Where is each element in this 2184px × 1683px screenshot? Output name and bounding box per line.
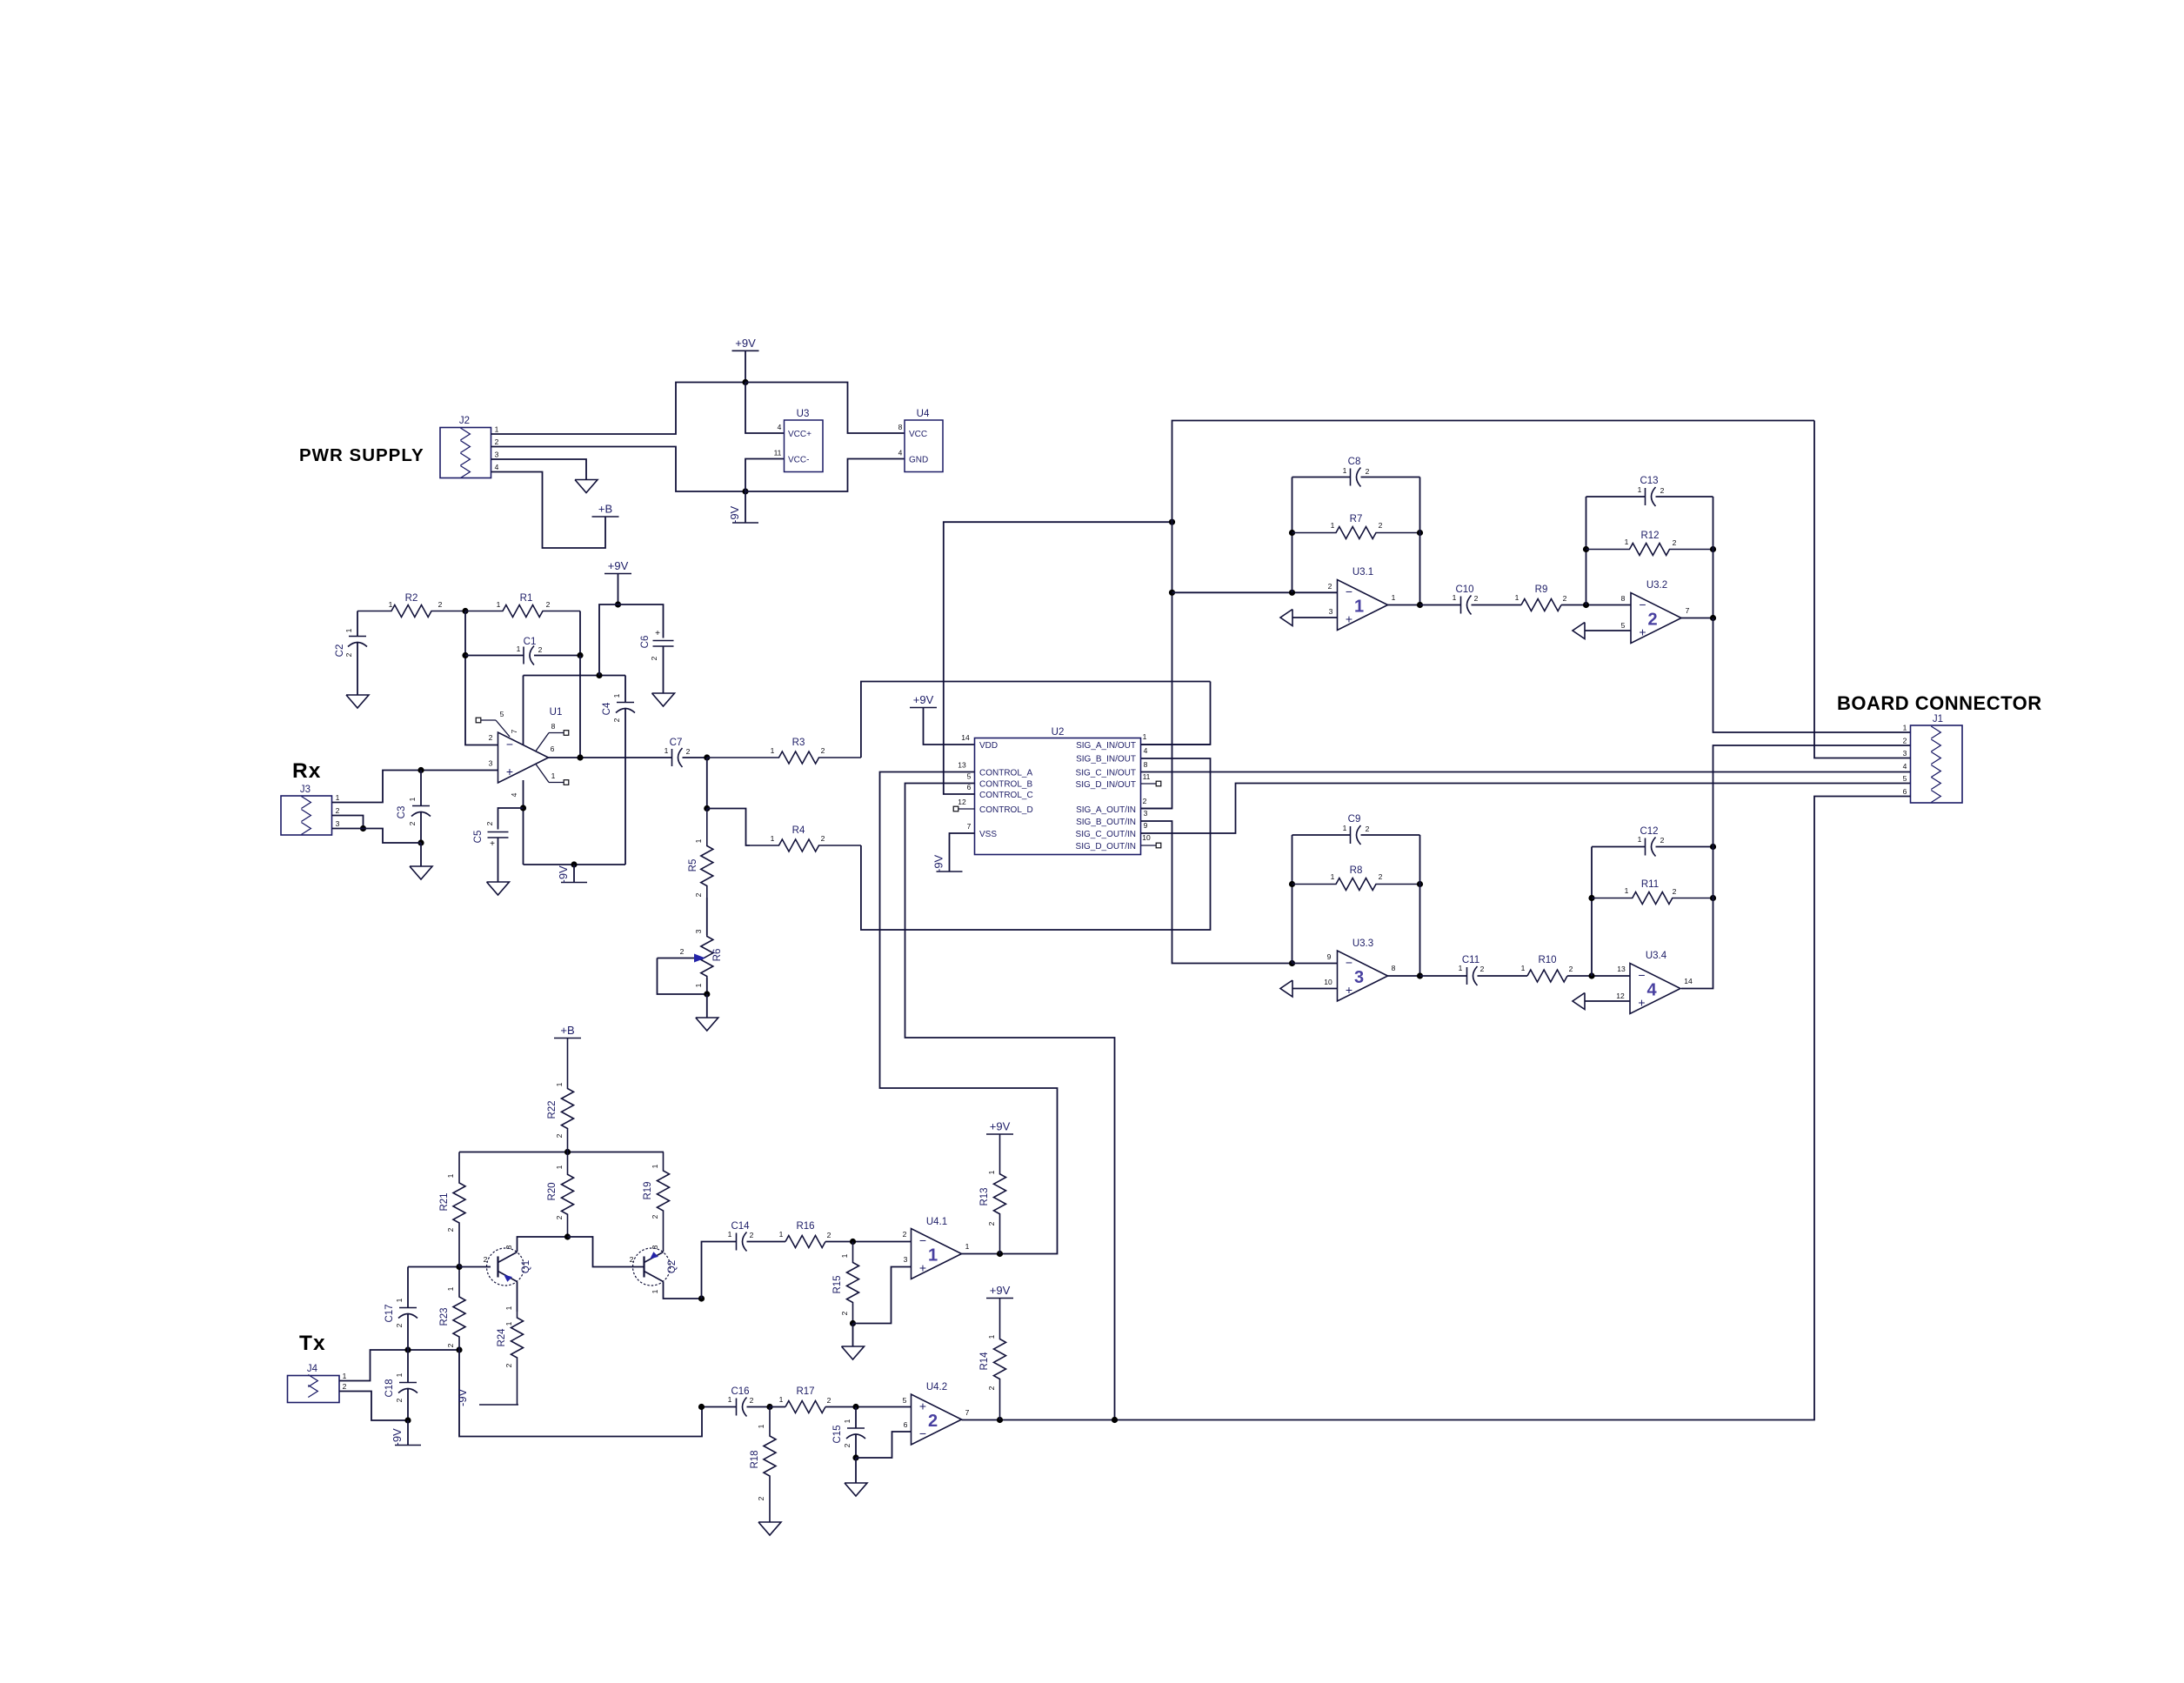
- capacitor C12: [1638, 826, 1665, 857]
- svg-text:C14: C14: [731, 1221, 750, 1232]
- junction U4.2 out: [997, 1417, 1003, 1423]
- wire SIG_A_OUT drop: [1141, 522, 1172, 808]
- svg-text:1: 1: [336, 793, 340, 802]
- svg-text:8: 8: [1392, 964, 1396, 972]
- wire Q2 collector down: [664, 1282, 702, 1299]
- svg-text:1: 1: [987, 1334, 996, 1339]
- junction -9V rail: [742, 488, 748, 494]
- capacitor C10: [1453, 584, 1479, 615]
- wire Q1 collector: [518, 1237, 568, 1252]
- svg-text:J3: J3: [300, 785, 311, 795]
- svg-text:1: 1: [728, 1230, 732, 1239]
- svg-text:CONTROL_C: CONTROL_C: [979, 791, 1033, 800]
- wire J4 pin2 to C18 node: [339, 1392, 408, 1421]
- op-amp U3.3: [1324, 938, 1395, 1001]
- svg-text:4: 4: [898, 449, 903, 457]
- wire +9V to C6: [618, 604, 664, 638]
- wire C2 bottom lead: [357, 643, 358, 695]
- wire stage1 loop right: [1419, 478, 1421, 605]
- capacitor C9: [1343, 814, 1370, 845]
- wire C18 bottom lead: [407, 1389, 409, 1420]
- svg-text:R16: R16: [796, 1221, 814, 1232]
- svg-text:VCC: VCC: [909, 430, 927, 439]
- svg-text:+: +: [919, 1261, 926, 1275]
- resistor R22: [547, 1039, 574, 1152]
- resistor R21: [439, 1152, 465, 1267]
- wire U1 pin4: [523, 780, 524, 865]
- capacitor C16: [728, 1386, 754, 1417]
- svg-text:1: 1: [843, 1419, 852, 1423]
- resistor R8: [1292, 865, 1420, 891]
- svg-text:SIG_A_IN/OUT: SIG_A_IN/OUT: [1076, 741, 1136, 751]
- svg-text:2: 2: [1328, 582, 1332, 591]
- svg-text:1: 1: [555, 1082, 564, 1086]
- svg-text:R22: R22: [547, 1100, 558, 1119]
- svg-text:R8: R8: [1350, 865, 1363, 876]
- wire C12 right lead: [1656, 846, 1713, 848]
- capacitor C6: [640, 629, 674, 660]
- wire J3 pin2 jog: [332, 816, 364, 829]
- wire stage1 input: [1172, 591, 1338, 593]
- wire stage3 loop left: [1292, 835, 1293, 964]
- pot pin1 label: [694, 983, 703, 987]
- svg-text:SIG_A_OUT/IN: SIG_A_OUT/IN: [1076, 805, 1136, 815]
- svg-text:R24: R24: [497, 1328, 507, 1347]
- svg-text:4: 4: [1903, 762, 1907, 771]
- svg-text:9: 9: [1327, 952, 1332, 961]
- svg-text:1: 1: [497, 600, 501, 609]
- wire U3.3 output: [1388, 975, 1420, 977]
- pot pin3 label: [694, 929, 703, 933]
- svg-text:SIG_D_IN/OUT: SIG_D_IN/OUT: [1076, 780, 1136, 790]
- svg-text:+9V: +9V: [990, 1120, 1011, 1133]
- svg-text:2: 2: [1474, 594, 1479, 603]
- svg-text:8: 8: [551, 722, 556, 731]
- op-amp U3.2: [1621, 580, 1690, 644]
- resistor R9: [1515, 584, 1567, 611]
- svg-text:2: 2: [446, 1343, 455, 1347]
- wire J3 pin3 to C3 bottom: [332, 829, 422, 844]
- resistor R12: [1586, 531, 1713, 556]
- svg-text:R20: R20: [547, 1182, 558, 1200]
- svg-text:7: 7: [1686, 606, 1690, 615]
- wire CONTROL_C up-over: [944, 522, 1172, 794]
- svg-text:1: 1: [779, 1395, 784, 1404]
- junction R8 right: [1417, 881, 1423, 887]
- ground (C6): [652, 693, 675, 706]
- svg-text:Tx: Tx: [299, 1332, 326, 1355]
- wire C4 top lead: [624, 676, 626, 703]
- svg-text:1: 1: [555, 1165, 564, 1169]
- svg-text:J4: J4: [307, 1364, 318, 1374]
- svg-text:1: 1: [343, 1372, 347, 1380]
- svg-text:10: 10: [1324, 978, 1332, 986]
- svg-text:12: 12: [958, 798, 966, 806]
- svg-text:−: −: [1639, 598, 1646, 611]
- svg-text:2: 2: [928, 1412, 938, 1431]
- wire C4 bottom lead: [624, 709, 626, 865]
- junction Q2 collector node: [698, 1295, 705, 1301]
- junction R11 left: [1588, 895, 1594, 901]
- connector J2: [440, 416, 499, 478]
- svg-text:C16: C16: [731, 1386, 749, 1397]
- resistor R10: [1521, 955, 1573, 982]
- wire U3.2 out to J1 pin1: [1713, 618, 1911, 733]
- wire top long rail: [1172, 421, 1815, 523]
- ref arrow (U3.3 +in): [1280, 980, 1292, 997]
- junction C16 node: [698, 1404, 705, 1410]
- svg-text:R21: R21: [439, 1192, 450, 1211]
- ground (R18): [758, 1522, 781, 1535]
- svg-text:2: 2: [1480, 965, 1485, 973]
- svg-text:-9V: -9V: [391, 1428, 404, 1446]
- resistor R5: [688, 809, 713, 898]
- transistor Q1: [487, 1248, 532, 1286]
- svg-text:R2: R2: [405, 593, 418, 604]
- svg-text:-9V: -9V: [932, 854, 945, 872]
- resistor R24: [497, 1306, 524, 1405]
- svg-text:3: 3: [1144, 809, 1148, 818]
- resistor R20: [547, 1152, 574, 1238]
- svg-text:SIG_C_OUT/IN: SIG_C_OUT/IN: [1076, 830, 1136, 839]
- svg-text:2: 2: [694, 892, 703, 897]
- junction C3 bottom: [417, 839, 424, 845]
- svg-text:1: 1: [1459, 964, 1463, 972]
- wire C15 ground stem: [855, 1458, 857, 1483]
- svg-text:U3.3: U3.3: [1352, 938, 1373, 949]
- svg-text:1: 1: [665, 746, 669, 755]
- svg-text:C11: C11: [1462, 955, 1479, 965]
- svg-text:R6: R6: [712, 949, 723, 962]
- wire C15 to U4.2 -in: [856, 1432, 912, 1458]
- capacitor C11: [1459, 955, 1485, 985]
- wire C3 top lead: [420, 771, 422, 806]
- svg-text:4: 4: [495, 463, 499, 471]
- junction R18 top: [766, 1404, 772, 1410]
- resistor R1: [465, 593, 580, 618]
- wire U3.4 +in: [1585, 1000, 1630, 1002]
- svg-text:2: 2: [630, 1255, 634, 1264]
- wire U3.3 +in: [1292, 988, 1338, 990]
- svg-text:2: 2: [1563, 594, 1567, 603]
- ground (R15): [842, 1346, 865, 1359]
- svg-text:R11: R11: [1641, 879, 1659, 890]
- wire U3 VCC- stub: [745, 459, 785, 492]
- capacitor C14: [728, 1221, 754, 1252]
- power -9V (R24): [456, 1388, 518, 1406]
- svg-text:R18: R18: [750, 1450, 760, 1468]
- junction U3.1 input tap: [1169, 590, 1175, 596]
- wire U3.1 +in: [1292, 617, 1338, 618]
- svg-text:1: 1: [1343, 466, 1347, 475]
- wire C16 to R18 node: [747, 1406, 771, 1408]
- junction R15 top: [850, 1239, 856, 1245]
- svg-text:8: 8: [1144, 760, 1148, 769]
- svg-text:+9V: +9V: [608, 559, 629, 572]
- capacitor C2: [335, 628, 367, 657]
- svg-text:1: 1: [1331, 872, 1335, 881]
- wire collector node to Q2 base: [568, 1237, 645, 1267]
- svg-text:4: 4: [510, 792, 518, 797]
- svg-text:BOARD CONNECTOR: BOARD CONNECTOR: [1837, 692, 2042, 714]
- ref arrow (U3.2 +in): [1573, 623, 1585, 639]
- junction R8 left: [1289, 881, 1295, 887]
- wire to C14 row: [702, 1242, 737, 1299]
- wire R5 top: [706, 758, 708, 809]
- svg-text:1: 1: [1392, 593, 1396, 602]
- svg-text:5: 5: [500, 710, 504, 718]
- svg-text:1: 1: [928, 1246, 938, 1266]
- svg-text:4: 4: [1144, 746, 1148, 755]
- svg-text:R19: R19: [643, 1181, 653, 1199]
- svg-text:2: 2: [484, 1255, 488, 1264]
- svg-text:U3.1: U3.1: [1352, 567, 1373, 578]
- wire to R17: [770, 1406, 785, 1408]
- pin 11 pad U2: [1156, 781, 1161, 786]
- pin 5 stub U1: [481, 710, 510, 737]
- svg-text:2: 2: [987, 1221, 996, 1226]
- wire -9V rail to U4 GND: [745, 459, 905, 492]
- op-amp U3.4: [1616, 951, 1693, 1014]
- svg-text:C8: C8: [1348, 457, 1361, 467]
- svg-text:7: 7: [510, 729, 518, 733]
- power -9V (C18): [391, 1428, 421, 1446]
- wire C11 to R10: [1478, 975, 1528, 977]
- svg-text:11: 11: [774, 449, 782, 457]
- svg-text:R15: R15: [832, 1275, 843, 1293]
- wire CONTROL_B to U4.2 out: [905, 784, 1115, 1420]
- svg-text:U1: U1: [550, 707, 563, 718]
- svg-text:2: 2: [987, 1386, 996, 1390]
- svg-text:1: 1: [1625, 538, 1629, 546]
- power +B (supply): [592, 503, 619, 518]
- Q2 pin labels: [630, 1245, 659, 1293]
- wire to C11: [1420, 975, 1467, 977]
- wire R6 wiper loop: [658, 958, 707, 995]
- wire C1 node to output node: [579, 656, 581, 758]
- svg-text:2: 2: [750, 1396, 754, 1405]
- svg-text:SIG_D_OUT/IN: SIG_D_OUT/IN: [1076, 842, 1136, 852]
- wire stage3 input cont: [1292, 963, 1338, 965]
- junction C15 top: [852, 1404, 858, 1410]
- ground (R6): [696, 1018, 718, 1031]
- resistor R3: [707, 738, 861, 764]
- wire R5 to R6: [706, 898, 708, 935]
- wire Q1 base: [459, 1266, 491, 1268]
- wire U3.1 output: [1388, 604, 1420, 606]
- svg-text:2: 2: [1379, 521, 1383, 530]
- svg-text:1: 1: [551, 771, 556, 780]
- wire U1 bottom edge: [524, 864, 626, 865]
- svg-text:−: −: [1638, 968, 1645, 982]
- svg-text:+: +: [655, 629, 660, 638]
- svg-text:2: 2: [757, 1496, 765, 1500]
- wire CONTROL_A to U4.1 out: [880, 772, 1058, 1254]
- op-amp U4.2: [903, 1382, 970, 1445]
- wire C7 to R3 node: [683, 757, 707, 758]
- big label Tx: [299, 1332, 326, 1355]
- svg-text:C12: C12: [1640, 826, 1658, 837]
- svg-text:U3: U3: [797, 409, 810, 419]
- svg-text:1: 1: [504, 1306, 513, 1310]
- svg-text:1: 1: [779, 1230, 784, 1239]
- junction J3 pin2/pin3: [360, 825, 366, 831]
- resistor R7: [1292, 514, 1420, 539]
- pin 12 pad U2: [953, 806, 958, 811]
- wire R4 riser: [861, 758, 1211, 930]
- wire U4.2 output: [962, 1419, 1000, 1421]
- svg-text:1: 1: [344, 628, 353, 632]
- svg-text:2: 2: [446, 1227, 455, 1232]
- svg-text:R4: R4: [792, 825, 805, 836]
- junction R12 left: [1583, 546, 1589, 552]
- svg-text:2: 2: [903, 1230, 907, 1239]
- svg-text:2: 2: [1903, 737, 1907, 745]
- wire U1 -9V stem: [573, 865, 575, 883]
- wire pin4 to C5: [498, 808, 524, 830]
- power +9V (R13): [986, 1120, 1013, 1135]
- svg-text:5: 5: [1903, 774, 1907, 783]
- wire +9V down to U3 VCC+: [745, 383, 785, 434]
- wire U3.2 output: [1681, 618, 1713, 619]
- wire R16 to U4.1: [825, 1241, 912, 1243]
- junction stage1 loop left bottom: [1289, 590, 1295, 596]
- svg-text:1: 1: [728, 1395, 732, 1404]
- svg-text:13: 13: [1617, 965, 1626, 973]
- junction R4/R5: [704, 805, 710, 811]
- svg-text:-9V: -9V: [456, 1388, 469, 1406]
- junction +9V rail: [742, 379, 748, 385]
- svg-text:GND: GND: [909, 456, 928, 465]
- svg-text:1: 1: [1354, 598, 1364, 617]
- junction C1 right: [577, 652, 583, 658]
- wire C8 right lead: [1361, 477, 1420, 478]
- wire J2 pin2 to -9V rail: [491, 447, 746, 492]
- resistor R11: [1592, 879, 1713, 905]
- wire C6 bottom lead: [663, 646, 665, 693]
- svg-text:3: 3: [495, 451, 499, 459]
- svg-text:2: 2: [489, 733, 493, 742]
- wire C17 bottom lead: [407, 1314, 409, 1350]
- svg-text:3: 3: [1329, 607, 1333, 616]
- svg-text:+B: +B: [598, 503, 612, 516]
- svg-text:−: −: [919, 1426, 926, 1440]
- pin 8 stub U1: [536, 722, 564, 751]
- svg-text:2: 2: [1673, 538, 1677, 547]
- wire J2 pin1 to +9V rail: [491, 383, 746, 435]
- wire C17 branch top: [407, 1267, 409, 1308]
- capacitor C8: [1343, 457, 1370, 487]
- pin 12 stub U2: [958, 808, 975, 810]
- svg-text:2: 2: [686, 747, 691, 756]
- svg-text:2: 2: [395, 1398, 404, 1402]
- pin 10 pad U2: [1156, 843, 1161, 848]
- svg-text:1: 1: [517, 644, 521, 653]
- junction C1 left: [462, 652, 468, 658]
- svg-text:3: 3: [651, 1245, 659, 1249]
- junction C15 bottom: [852, 1454, 858, 1460]
- wire stage3 loop right: [1419, 835, 1421, 976]
- ground (C5): [487, 882, 510, 895]
- svg-text:1: 1: [495, 425, 499, 434]
- power -9V (U1): [557, 865, 587, 884]
- junction stage4 in: [1588, 972, 1594, 978]
- svg-text:-9V: -9V: [557, 865, 570, 884]
- svg-text:PWR SUPPLY: PWR SUPPLY: [299, 445, 424, 465]
- svg-text:14: 14: [961, 733, 970, 742]
- svg-text:J1: J1: [1933, 714, 1943, 725]
- svg-text:2: 2: [821, 746, 825, 755]
- wire R9 to U3.2: [1561, 604, 1631, 606]
- IC U2 box: [975, 727, 1141, 855]
- capacitor C5: [473, 821, 509, 849]
- svg-text:1: 1: [395, 1298, 404, 1302]
- power +9V (supply): [732, 337, 759, 351]
- svg-text:1: 1: [389, 600, 393, 609]
- svg-text:C9: C9: [1348, 814, 1361, 825]
- ground (C2): [346, 695, 369, 708]
- svg-text:2: 2: [1660, 836, 1665, 845]
- svg-text:6: 6: [551, 745, 555, 753]
- svg-text:1: 1: [1331, 521, 1335, 530]
- capacitor C4: [602, 693, 635, 722]
- svg-text:1: 1: [651, 1289, 659, 1293]
- svg-text:+B: +B: [560, 1024, 574, 1037]
- svg-text:1: 1: [1903, 724, 1907, 732]
- wire U1 pin7: [523, 676, 524, 745]
- svg-text:+: +: [1346, 612, 1352, 626]
- junction U1 out / C1C4 node: [577, 754, 583, 760]
- pin 1 pad U1: [564, 780, 569, 785]
- wire C1 left lead: [465, 655, 524, 657]
- svg-text:2: 2: [546, 600, 551, 609]
- wire R10 to U3.4: [1567, 975, 1630, 977]
- resistor R6 (pot): [701, 935, 723, 978]
- svg-text:2: 2: [555, 1215, 564, 1219]
- svg-text:2: 2: [821, 834, 825, 843]
- wire R3 riser: [861, 682, 1211, 758]
- big label Rx: [292, 759, 321, 783]
- svg-text:10: 10: [1142, 833, 1151, 842]
- svg-text:C18: C18: [384, 1379, 395, 1397]
- svg-text:+9V: +9V: [735, 337, 756, 350]
- wire U1 top edge: [524, 675, 626, 677]
- svg-text:C13: C13: [1640, 476, 1658, 486]
- wire U1 output: [549, 757, 672, 758]
- pin 4 label U1: [510, 792, 518, 797]
- power +9V (U2): [910, 693, 937, 708]
- wire stage4 loop left: [1591, 847, 1593, 977]
- capacitor C7: [665, 738, 691, 767]
- op-amp U3.1: [1328, 567, 1396, 631]
- svg-text:VCC-: VCC-: [788, 456, 809, 465]
- svg-text:1: 1: [612, 693, 621, 698]
- svg-text:U3.4: U3.4: [1646, 951, 1667, 961]
- wire node down to U1 -in: [465, 611, 498, 745]
- svg-text:SIG_B_OUT/IN: SIG_B_OUT/IN: [1076, 818, 1136, 827]
- capacitor C17: [384, 1298, 417, 1327]
- svg-text:2: 2: [750, 1231, 754, 1239]
- svg-text:2: 2: [1366, 467, 1370, 476]
- svg-text:2: 2: [1569, 965, 1573, 973]
- wire to C10: [1420, 604, 1461, 606]
- wire +9V stem (U1): [618, 574, 619, 605]
- junction Q1 base node: [456, 1264, 462, 1270]
- svg-text:C3: C3: [397, 806, 407, 819]
- junction C18 bottom: [404, 1417, 411, 1423]
- svg-text:7: 7: [965, 1408, 970, 1417]
- op-amp U1: [489, 707, 563, 783]
